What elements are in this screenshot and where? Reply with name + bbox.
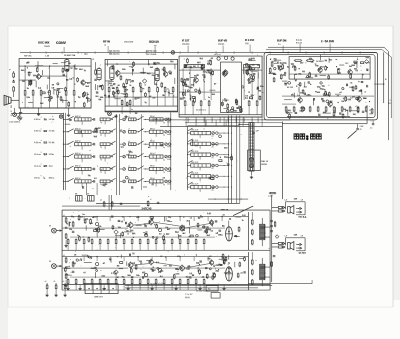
tuning capacitor ellipse	[249, 158, 254, 168]
right lower row	[298, 98, 302, 102]
circled terminal X1	[13, 113, 17, 117]
ch2 misc parts	[225, 273, 226, 274]
matrix bottom double border	[96, 203, 240, 205]
ground g3	[68, 114, 70, 116]
diode bridge D1	[142, 79, 146, 83]
terminal strip box	[85, 284, 118, 294]
ch2 bias chain	[247, 252, 249, 290]
transformer T2	[110, 67, 114, 80]
upper link wires	[208, 198, 248, 200]
hanging component 1SF	[357, 124, 359, 128]
bottom cluster left of matrix	[121, 99, 123, 100]
long bottom wire pair	[125, 284, 272, 286]
ch1 transistor C	[180, 226, 185, 231]
link diagonal	[233, 206, 253, 216]
ch1 transistor D	[209, 220, 213, 224]
converter section box	[19, 59, 91, 109]
transistor Q5	[222, 71, 227, 76]
ch2 transistor D	[209, 260, 213, 264]
transistor Q7	[248, 78, 252, 82]
caption kanji block	[294, 134, 321, 140]
matrix speckle marks	[65, 123, 70, 125]
ch1 electrolytic caps	[144, 233, 147, 236]
circled terminal X3	[108, 112, 112, 116]
converter wires	[19, 65, 91, 67]
amfm bottom buses	[105, 105, 178, 107]
speaker bus parts	[270, 220, 272, 222]
ch1 misc parts	[163, 216, 165, 221]
spk1 connector arrows right	[300, 207, 302, 209]
ch2 transistor B	[149, 260, 153, 264]
IF strip section box	[179, 56, 262, 117]
matrix rows group C coils	[144, 116, 172, 124]
bottom small box	[206, 286, 218, 292]
dial drive vertical rect	[249, 123, 254, 172]
ch1 transistor A	[128, 223, 133, 228]
ch1 resistor ladder	[67, 238, 69, 239]
transistor Q3	[116, 71, 120, 75]
header leader ticks	[63, 47, 65, 53]
right section inner rounded box	[267, 55, 376, 118]
ch1 strip wires	[62, 216, 248, 218]
transistor Q1	[36, 74, 40, 78]
dial top link	[239, 123, 249, 125]
ch2 transistor C	[180, 266, 185, 271]
right hanging part 2	[372, 120, 374, 123]
mid bus drops	[167, 117, 169, 127]
IF resistor ladder	[184, 100, 186, 101]
transformer T1	[65, 60, 69, 72]
ch2 input terminal	[51, 264, 56, 269]
bottom left parts cluster	[45, 281, 49, 297]
converter resistor ladder	[24, 89, 26, 90]
ch1 driver transistor ellipse	[226, 227, 233, 241]
ch2 driver transistor ellipse	[226, 267, 233, 281]
ch1 bias chain	[247, 212, 249, 250]
transistor Q4	[163, 72, 167, 76]
scan speckle noise	[129, 228, 132, 231]
antenna	[4, 95, 11, 105]
transistor Q8	[223, 70, 228, 75]
IF bottom connector rows	[150, 119, 290, 121]
matrix osc top link	[188, 125, 239, 127]
matrix rows group B	[120, 116, 144, 121]
mid horizontal bus	[160, 126, 282, 128]
trimmer trio	[217, 57, 220, 60]
matrix bus left pair	[62, 113, 64, 190]
ink layer echo	[4, 39, 391, 299]
spk1 wiring box	[286, 202, 306, 215]
ink layer	[4, 39, 391, 299]
matrix rows group D osc coils	[187, 128, 229, 138]
right bottom corner lines	[287, 116, 350, 118]
spk1 speaker symbol	[288, 207, 291, 213]
ch2 input parts	[65, 257, 67, 258]
matrix bus mid pair	[116, 114, 118, 195]
circled terminal X4	[59, 115, 62, 118]
audio section top border	[62, 209, 270, 211]
ch1 output transformer	[260, 224, 265, 239]
IF bottom buses	[179, 114, 262, 116]
AM FM IF section box	[105, 59, 178, 112]
right stage parts	[365, 60, 369, 64]
spk2 plug rects	[278, 242, 282, 244]
top section rule	[20, 52, 377, 54]
IF vertical grid	[182, 68, 184, 100]
ch2 resistor ladder	[67, 278, 69, 279]
spk2 connector arrows left	[283, 242, 285, 244]
right section outer rounded box	[264, 52, 378, 120]
ch2 strip wires	[62, 256, 248, 258]
IF block label rect 1	[184, 65, 205, 68]
top right cable loop inner	[266, 50, 391, 118]
speaker bus vertical	[271, 195, 273, 282]
ch1 transistor B	[149, 220, 153, 224]
ch2 electrolytic caps	[144, 273, 147, 276]
right vertical bus	[383, 52, 385, 103]
spk2 connector arrows right	[300, 243, 302, 245]
spk2 wiring box	[286, 238, 306, 251]
IF detector tall box	[221, 62, 242, 113]
spk1 plug rects	[278, 206, 282, 208]
IF block label rect 2	[244, 65, 260, 68]
left bus wire	[11, 112, 63, 114]
matrix to audio vertical pair	[108, 195, 110, 210]
page edge lines	[8, 25, 393, 27]
antenna input parts	[13, 72, 15, 73]
converter bottom bus	[19, 107, 91, 109]
right inner stage box	[289, 57, 370, 80]
transistor Q6	[194, 78, 198, 82]
matrix rows group A coils	[63, 115, 116, 125]
matrix bus group C right	[170, 113, 172, 191]
transistor Q2	[81, 80, 85, 84]
ch2 volume diamond	[114, 270, 118, 274]
right bottom parts	[357, 107, 359, 108]
top right cable loop outer	[268, 47, 389, 140]
tuning capacitor box	[248, 150, 261, 171]
right lower misc	[315, 91, 316, 92]
IF detector bottom cluster	[231, 107, 233, 109]
ch1 input parts	[65, 217, 67, 218]
bottom right wire	[248, 283, 312, 285]
ch1 volume diamond	[114, 230, 118, 234]
matrix to audio link parts	[103, 201, 105, 202]
matrix bus right verticals	[228, 116, 230, 204]
spk2 speaker symbol	[288, 243, 291, 249]
circled terminal X2	[171, 51, 175, 55]
pointer diagonal	[348, 131, 357, 139]
ground g2	[38, 113, 40, 115]
ch2 output transformer	[260, 264, 265, 279]
amfm resistor ladder	[108, 86, 110, 87]
IF wires	[179, 69, 221, 71]
matrix inner verticals	[141, 114, 143, 190]
amfm wires	[105, 63, 178, 65]
audio box borders	[61, 210, 63, 290]
spk1 connector arrows left	[283, 206, 285, 208]
ch1 input terminal	[51, 228, 56, 233]
under matrix connector cluster	[86, 183, 88, 195]
coupling parts	[95, 69, 97, 70]
ch2 transistor A	[128, 263, 133, 268]
loop antenna symbol	[17, 115, 22, 120]
ground g1	[20, 111, 22, 113]
audio bottom grounds	[67, 285, 69, 288]
matrix osc bus	[187, 126, 189, 190]
transformer T3	[155, 69, 159, 81]
